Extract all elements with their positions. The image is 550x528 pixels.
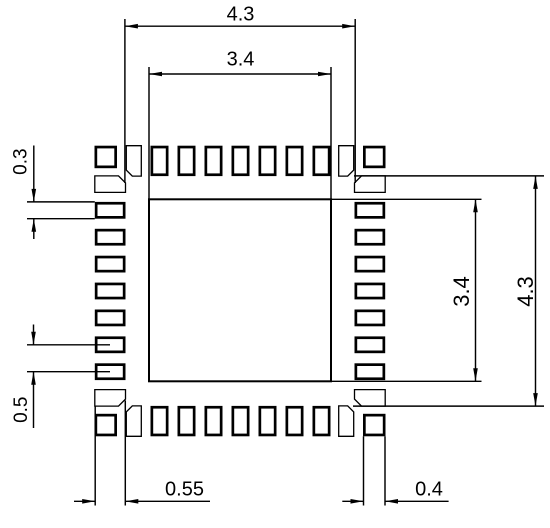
arrowhead 0.55 right-pointing bbox=[82, 499, 95, 504]
chamfer pad left column top end bbox=[95, 176, 126, 193]
corner square pad bottom-right bbox=[364, 415, 384, 435]
dimension line 3.4 top bbox=[149, 73, 331, 75]
pad top row 7 bbox=[314, 147, 329, 175]
svg-text:4.3: 4.3 bbox=[513, 276, 538, 307]
pad bottom row 7 bbox=[314, 407, 329, 435]
dimension line 0.55 left segment bbox=[74, 500, 95, 502]
arrowhead 0.3 up bbox=[32, 219, 37, 232]
extension line 3.4 right lower bbox=[331, 380, 482, 382]
extension line 4.3 top right bbox=[354, 19, 356, 183]
svg-text:0.4: 0.4 bbox=[415, 479, 443, 501]
pad top row 4 bbox=[233, 147, 248, 175]
dimension line 4.3 top bbox=[125, 25, 355, 27]
pad left column 4 bbox=[96, 284, 124, 298]
chamfer pad top row left end bbox=[126, 146, 141, 176]
pad bottom row 6 bbox=[287, 407, 302, 435]
chamfer pad right column top end bbox=[355, 176, 386, 193]
dimension line 0.4 left segment bbox=[342, 500, 363, 502]
pad top row 5 bbox=[260, 147, 275, 175]
svg-text:0.55: 0.55 bbox=[165, 479, 204, 501]
pad left column 7 bbox=[96, 365, 124, 379]
arrowhead 3.4 top right bbox=[318, 72, 331, 77]
arrowhead 4.3 right down bbox=[533, 393, 538, 406]
arrowhead 0.5 up bbox=[31, 372, 36, 385]
arrowhead 4.3 right up bbox=[533, 176, 538, 189]
pad left column 2 bbox=[96, 230, 124, 244]
svg-text:3.4: 3.4 bbox=[227, 49, 255, 71]
arrowhead 3.4 right down bbox=[473, 368, 478, 381]
pad bottom row 2 bbox=[179, 407, 194, 435]
extension line 3.4 top left (to square edge) bbox=[148, 67, 150, 199]
pad bottom row 4 bbox=[233, 407, 248, 435]
pad right column 7 bbox=[356, 365, 384, 379]
dimension line 0.55 right segment bbox=[125, 500, 210, 502]
extension line 0.5 lower (pad center) bbox=[27, 371, 110, 373]
svg-text:0.3: 0.3 bbox=[11, 148, 32, 174]
pad bottom row 1 bbox=[152, 407, 167, 435]
dimension line 3.4 right bbox=[475, 199, 477, 381]
pad right column 6 bbox=[356, 338, 384, 352]
arrowhead 0.55 left-pointing bbox=[125, 499, 138, 504]
pad left column 3 bbox=[96, 257, 124, 271]
extension line 0.55 left bbox=[94, 406, 96, 505]
pad top row 3 bbox=[206, 147, 221, 175]
pad bottom row 5 bbox=[260, 407, 275, 435]
svg-text:3.4: 3.4 bbox=[449, 276, 474, 307]
pad left column 6 bbox=[96, 338, 124, 352]
package body outline (3.4 x 3.4 square) bbox=[149, 199, 331, 381]
arrowhead 3.4 right up bbox=[473, 199, 478, 212]
chamfer pad bottom row right end bbox=[339, 406, 354, 436]
pad bottom row 3 bbox=[206, 407, 221, 435]
pad right column 2 bbox=[356, 230, 384, 244]
dimension line 0.4 right segment bbox=[385, 500, 449, 502]
chamfer pad bottom row left end bbox=[126, 406, 141, 436]
arrowhead 4.3 top left bbox=[125, 24, 138, 29]
extension line 0.5 upper (pad center) bbox=[27, 344, 110, 346]
pad top row 6 bbox=[287, 147, 302, 175]
extension line 4.3 right upper bbox=[354, 175, 544, 177]
pad top row 2 bbox=[179, 147, 194, 175]
extension line 3.4 right upper bbox=[331, 198, 482, 200]
svg-text:4.3: 4.3 bbox=[227, 3, 255, 25]
arrowhead 0.5 down bbox=[31, 332, 36, 345]
extension line 0.55 right bbox=[124, 400, 126, 505]
pad right column 5 bbox=[356, 311, 384, 325]
pad left column 1 bbox=[96, 203, 124, 217]
extension line 0.4 right bbox=[384, 436, 386, 505]
pad top row 1 bbox=[152, 147, 167, 175]
extension line 0.3 upper bbox=[27, 201, 95, 203]
extension line 4.3 right lower bbox=[353, 405, 544, 407]
chamfer pad left column bottom end bbox=[95, 390, 126, 407]
pad right column 3 bbox=[356, 257, 384, 271]
svg-text:0.5: 0.5 bbox=[11, 396, 32, 422]
arrowhead 0.3 down bbox=[32, 189, 37, 202]
extension line 3.4 top right (to square edge) bbox=[330, 67, 332, 199]
extension line 4.3 top left bbox=[124, 19, 126, 183]
pad right column 4 bbox=[356, 284, 384, 298]
arrowhead 0.4 right-pointing bbox=[351, 499, 364, 504]
dimension line 0.3 lower segment bbox=[33, 219, 35, 239]
corner square pad bottom-left bbox=[96, 415, 116, 435]
pad left column 5 bbox=[96, 311, 124, 325]
dimension line 4.3 right bbox=[535, 176, 537, 406]
chamfer pad right column bottom end bbox=[355, 390, 386, 407]
dimension line 0.3 upper segment bbox=[33, 146, 35, 202]
dimension line 0.5 lower segment bbox=[33, 372, 35, 428]
pad right column 1 bbox=[356, 203, 384, 217]
extension line 0.4 left bbox=[363, 436, 365, 505]
corner square pad top-left bbox=[96, 147, 116, 167]
extension line 0.3 lower bbox=[27, 218, 95, 220]
arrowhead 0.4 left-pointing bbox=[385, 499, 398, 504]
dimension line 0.5 upper segment bbox=[33, 325, 35, 345]
corner square pad top-right bbox=[364, 147, 384, 167]
arrowhead 4.3 top right bbox=[342, 24, 355, 29]
arrowhead 3.4 top left bbox=[149, 72, 162, 77]
chamfer pad top row right end bbox=[339, 146, 354, 176]
